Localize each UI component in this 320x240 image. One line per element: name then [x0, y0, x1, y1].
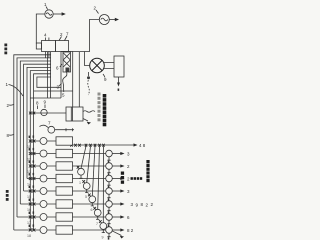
separator valve row y217 [107, 220, 110, 223]
label 7 leader [65, 36, 68, 41]
separator pump row y204 [106, 201, 113, 208]
jacket left wall [60, 51, 62, 98]
separator sub-label y191 [108, 198, 110, 200]
row 3 pump [40, 163, 47, 170]
label 2 leader [59, 37, 62, 41]
header drop 5 [102, 146, 104, 223]
separator sub-label y230 [108, 237, 110, 239]
jacket inner wall [72, 51, 74, 107]
row A valve b [33, 112, 36, 115]
row 6 valve labels [29, 199, 31, 201]
manifold pipe 6 [30, 71, 51, 230]
horizontal dots label row4 [131, 177, 143, 180]
row 3 valve a [29, 165, 32, 168]
row A feed line [30, 112, 66, 114]
svg-text:2: 2 [94, 6, 97, 11]
row 5 valve a [29, 190, 32, 193]
vessel V2 [56, 41, 69, 52]
stage pump D2 [83, 183, 90, 190]
row 5 line [24, 190, 106, 192]
row 6 tank [56, 200, 73, 208]
row 3 valve b [32, 165, 35, 168]
svg-text:5: 5 [85, 195, 87, 199]
row 7 tank [56, 213, 73, 221]
separator pump row y217 [106, 214, 113, 221]
outlet arrow row y178.5 [112, 178, 121, 180]
condenser K1 [114, 56, 124, 77]
row 8 valve a [29, 229, 32, 232]
row 2 pump [40, 150, 47, 157]
vessel V2 legs [64, 51, 68, 54]
row 4 pump [40, 175, 47, 182]
row 5 valve labels [29, 186, 31, 188]
separator pump row y166 [106, 163, 113, 170]
svg-text:3: 3 [127, 189, 130, 194]
svg-text:3: 3 [131, 202, 134, 207]
bottom outlet diagonal [112, 231, 122, 236]
svg-text:16: 16 [27, 208, 31, 212]
header drop 2 [87, 146, 91, 183]
vessel V1 [42, 41, 56, 52]
svg-text:9: 9 [136, 203, 139, 208]
row 8 valve labels [29, 225, 31, 227]
stage pump D1 valve [77, 166, 80, 169]
separator valve row y153.5 [107, 157, 110, 160]
row 2 valve b [32, 152, 35, 155]
svg-text:9: 9 [104, 77, 107, 82]
pump P3 leader [40, 125, 49, 127]
svg-text:2: 2 [127, 177, 130, 182]
svg-text:5: 5 [62, 93, 65, 98]
svg-text:2: 2 [7, 103, 10, 108]
row 7 line [17, 216, 106, 218]
outlet arrow row y230 [112, 229, 121, 231]
header arrow [134, 143, 138, 146]
manifold pipe 5 [27, 67, 51, 178]
outlet arrow row y204 [112, 203, 121, 205]
wire fan inlet [85, 52, 90, 66]
manifold pipe 1 [14, 55, 51, 230]
stage pump D2 tee [85, 189, 88, 192]
wire pump P1 inlet [36, 14, 45, 44]
manifold pipe 4 [24, 64, 51, 191]
wire pump P2 inlet elbow [73, 20, 100, 52]
blower fan B1 [90, 58, 105, 73]
svg-text:6: 6 [56, 66, 59, 71]
row 7 valve labels [29, 212, 31, 214]
row 2 valve labels [29, 148, 31, 150]
vessel V1 legs [44, 52, 46, 59]
svg-text:1: 1 [79, 181, 81, 185]
wire W1 vent wavy [83, 111, 95, 113]
row 6 pump [40, 201, 47, 208]
row 3 tank [56, 162, 73, 170]
separator valve row y178.5 [107, 182, 110, 185]
svg-text:1: 1 [44, 2, 47, 7]
outlet arrow row y153.5 [112, 153, 121, 155]
vessel leg pipe A [47, 52, 49, 98]
separator valve row y166 [107, 169, 110, 172]
row 2 line [30, 153, 105, 155]
stage pump D1 tee [79, 175, 82, 178]
vertical caption fig2 [6, 190, 9, 201]
instrument stub [88, 72, 90, 76]
svg-text:3: 3 [127, 152, 130, 157]
vertical caption A-bold [103, 94, 107, 126]
separator sub-label y178.5 [108, 186, 110, 188]
label 6 leader [60, 64, 62, 67]
top-right pump P2 [99, 15, 109, 25]
row 7 pump [40, 214, 47, 221]
stage pump D5 valve [99, 220, 102, 223]
row 4 valve labels [29, 173, 31, 175]
row 4 line [27, 178, 106, 180]
manifold pipe 8 [37, 77, 61, 87]
header drop 3 [92, 146, 95, 196]
svg-text:2: 2 [60, 32, 63, 37]
separator valve row y191 [107, 194, 110, 197]
column bottom packing block [66, 68, 70, 73]
row 7 valve b [32, 216, 35, 219]
column drain pipe [63, 72, 67, 92]
separator sub-label y204 [108, 211, 110, 213]
svg-text:1: 1 [6, 82, 9, 87]
tank W1 divider [71, 107, 72, 121]
separator valve row y230 [107, 233, 110, 236]
separator sub-label y153.5 [108, 161, 110, 163]
row 8 tank [56, 226, 73, 234]
row 1 line [30, 140, 56, 142]
vertical caption A-light [98, 93, 101, 122]
row 4 tank [56, 174, 73, 182]
separator pump row y230 [106, 227, 113, 234]
row 4 valve a [29, 177, 32, 180]
packed column C1 [63, 52, 71, 72]
separator sub-label y166 [108, 173, 110, 175]
row 8 valve b [32, 229, 35, 232]
washer tank W1 [66, 107, 83, 121]
separator pump row y191 [106, 188, 113, 195]
wire pump P1 outlet arrow [53, 13, 62, 15]
label 3 leader [59, 84, 62, 87]
row 1 valve a [29, 140, 32, 143]
column packing [63, 53, 70, 67]
separator pump row y178.5 [106, 175, 113, 182]
header drop 1 [81, 146, 86, 168]
outlet arrow row y166 [112, 165, 121, 167]
svg-text:8: 8 [36, 101, 39, 106]
row 4 valve b [32, 177, 35, 180]
svg-text:18: 18 [27, 234, 31, 238]
svg-text:17: 17 [27, 221, 31, 225]
header valves [70, 144, 104, 147]
wire condenser drain arrow [118, 77, 120, 83]
row 6 line [20, 203, 105, 205]
separator pump row y153.5 [106, 150, 113, 157]
svg-text:9: 9 [44, 100, 47, 105]
stage pump D5 tee [102, 229, 105, 232]
manifold pipe 2 [17, 58, 51, 217]
vessel leg pipe B [50, 52, 52, 98]
stage pump D1 [78, 168, 85, 175]
svg-text:4: 4 [44, 33, 47, 38]
svg-text:7: 7 [48, 121, 51, 126]
row 3 valve labels [29, 161, 31, 163]
svg-text:6: 6 [127, 215, 130, 220]
row 1 pump [40, 138, 47, 145]
header line H1 [73, 144, 136, 146]
row 6 valve a [29, 203, 32, 206]
collector line [30, 97, 61, 99]
vertical caption C-bold [121, 172, 124, 184]
row 5 valve b [32, 190, 35, 193]
row A valve a [29, 112, 32, 115]
row 1 valve labels [29, 136, 31, 138]
row 5 tank [56, 187, 73, 195]
svg-text:8 2: 8 2 [127, 228, 134, 233]
vertical caption B-bold [146, 160, 149, 182]
outlet arrow row y191 [112, 190, 121, 192]
separator sub-label y217 [108, 224, 110, 226]
manifold stub pipe 7 [34, 90, 73, 92]
row 3 line [30, 165, 105, 167]
manifold pipe 3 [20, 61, 51, 204]
stage pump D4 tee [96, 216, 99, 219]
stage pump D2 valve [82, 180, 85, 183]
manifold pipe 7 [34, 74, 51, 230]
jacket right wall [78, 52, 80, 107]
label 4 leader [44, 38, 46, 41]
svg-text:15: 15 [27, 195, 31, 199]
wire pump P2 outlet arrow [109, 19, 116, 21]
vertical caption fig1 [4, 44, 7, 55]
svg-text:2: 2 [151, 202, 154, 207]
row 7 valve a [29, 216, 32, 219]
row 5 pump [40, 188, 47, 195]
svg-text:2: 2 [146, 203, 149, 208]
svg-text:9: 9 [102, 236, 104, 240]
header drop 4 [98, 146, 100, 209]
svg-text:4 8: 4 8 [139, 143, 146, 148]
stage pump D3 [89, 196, 96, 203]
row 1 tank [56, 137, 73, 145]
row A pump [41, 109, 47, 115]
column top cap [61, 50, 73, 52]
instrument dashed tail [88, 80, 89, 95]
row 8 line [14, 229, 106, 231]
row 8 pump [40, 227, 47, 234]
stage pump D5 [100, 223, 107, 230]
row 2 tank [56, 149, 73, 157]
svg-text:6: 6 [91, 208, 93, 212]
separator valve row y204 [107, 207, 110, 210]
stage pump D4 [94, 209, 101, 216]
svg-text:7: 7 [96, 222, 98, 226]
vessel V1 side box [36, 43, 41, 49]
pump P3 [48, 126, 55, 133]
stage pump D3 tee [91, 203, 94, 206]
top-left pump P1 [45, 10, 53, 18]
row 1 valve b [32, 140, 35, 143]
label 13 leader [103, 74, 105, 78]
stage pump D4 valve [93, 207, 96, 210]
row 6 valve b [32, 203, 35, 206]
svg-text:2: 2 [127, 164, 130, 169]
wire P3 out [55, 128, 74, 131]
fan outlet duct [104, 63, 114, 69]
stage pump D3 valve [88, 194, 91, 197]
svg-text:8: 8 [7, 133, 10, 138]
wire W1 drain arrow [83, 119, 88, 122]
svg-text:7: 7 [66, 32, 69, 37]
row 2 valve a [29, 152, 32, 155]
outlet arrow row y217 [112, 216, 121, 218]
svg-text:8: 8 [141, 202, 144, 207]
